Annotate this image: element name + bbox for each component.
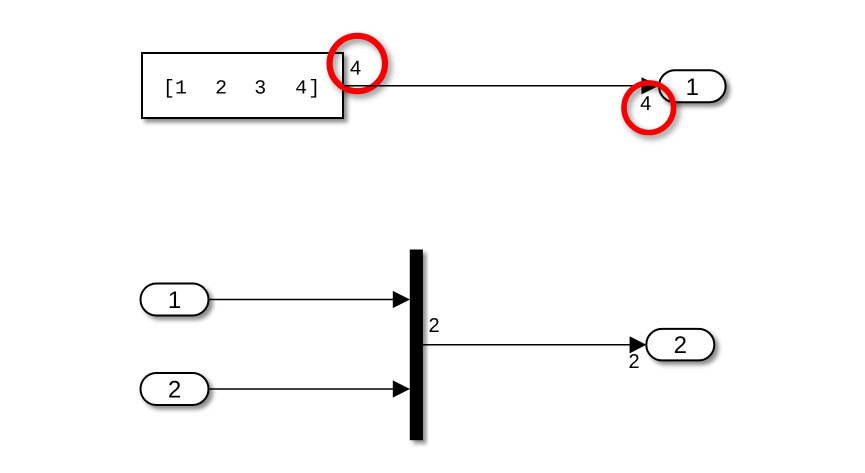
svg-text:3: 3: [254, 77, 266, 100]
wire In1 to Mux input 1: [209, 299, 397, 301]
outport block Out2: [646, 329, 714, 361]
svg-text:1: 1: [686, 74, 699, 101]
svg-text:[: [: [163, 77, 175, 100]
svg-text:2: 2: [674, 332, 687, 359]
arrowhead at Out1 input port: [642, 77, 660, 94]
outport block Out1: [659, 70, 726, 102]
wire Mux to Out2: [423, 344, 632, 346]
mux block (vertical bar): [410, 250, 423, 441]
svg-text:2: 2: [428, 315, 439, 337]
svg-text:]: ]: [308, 77, 320, 100]
red circle annotation around Constant output port: [330, 36, 385, 91]
red circle annotation around Out1 input port: [624, 83, 674, 133]
wire Constant to Out1: [344, 85, 644, 87]
arrowhead at Out2 input port: [630, 336, 647, 353]
svg-text:4: 4: [295, 77, 307, 100]
svg-text:2: 2: [215, 77, 227, 100]
wire In2 to Mux input 2: [209, 388, 397, 390]
constant block Constant value [1 2 3 4]: [142, 53, 343, 118]
arrowhead at Mux input 2: [393, 380, 410, 397]
svg-text:2: 2: [628, 351, 639, 373]
inport block In1: [141, 284, 209, 316]
svg-text:4: 4: [350, 58, 361, 80]
arrowhead at Mux input 1: [393, 291, 410, 308]
svg-text:2: 2: [168, 377, 181, 404]
svg-text:1: 1: [168, 287, 181, 314]
svg-text:4: 4: [640, 93, 651, 115]
inport block In2: [141, 373, 209, 405]
constant value text [1 2 3 4]: [163, 77, 320, 100]
svg-text:1: 1: [175, 77, 187, 100]
